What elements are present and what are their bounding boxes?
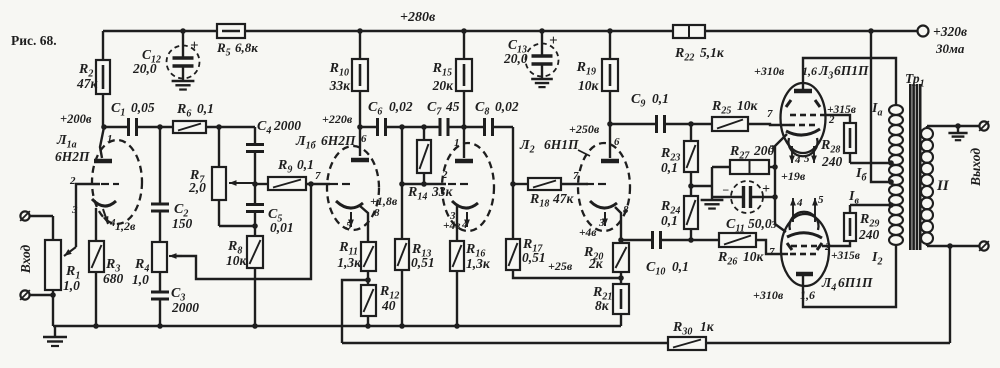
svg-text:0,02: 0,02 bbox=[389, 99, 413, 114]
svg-text:+: + bbox=[549, 33, 558, 49]
svg-text:0,1: 0,1 bbox=[197, 101, 214, 116]
svg-text:+320в: +320в bbox=[933, 24, 967, 39]
svg-text:1: 1 bbox=[454, 137, 460, 149]
svg-text:20,0: 20,0 bbox=[132, 61, 157, 76]
svg-text:Вход: Вход bbox=[18, 244, 33, 274]
svg-text:0,05: 0,05 bbox=[131, 100, 155, 115]
svg-text:2: 2 bbox=[828, 114, 835, 126]
svg-text:20,0: 20,0 bbox=[503, 51, 528, 66]
svg-text:1,3к: 1,3к bbox=[337, 255, 362, 270]
svg-text:45: 45 bbox=[445, 99, 460, 114]
svg-text:10к: 10к bbox=[578, 78, 600, 93]
svg-text:−: − bbox=[722, 183, 729, 197]
svg-text:4: 4 bbox=[794, 154, 801, 166]
svg-text:0,01: 0,01 bbox=[270, 220, 294, 235]
svg-text:1,0: 1,0 bbox=[63, 278, 80, 293]
svg-text:+19в: +19в bbox=[781, 169, 806, 183]
svg-text:5: 5 bbox=[818, 194, 824, 206]
svg-text:2к: 2к bbox=[588, 256, 604, 271]
svg-text:8к: 8к bbox=[595, 298, 610, 313]
svg-text:2: 2 bbox=[441, 169, 448, 181]
svg-text:3: 3 bbox=[71, 204, 78, 216]
svg-text:40: 40 bbox=[381, 298, 396, 313]
svg-text:+220в: +220в bbox=[322, 112, 353, 126]
svg-text:+310в: +310в bbox=[753, 288, 784, 302]
svg-text:10к: 10к bbox=[743, 249, 765, 264]
svg-text:33к: 33к bbox=[329, 78, 352, 93]
svg-text:+250в: +250в bbox=[569, 122, 600, 136]
svg-text:20к: 20к bbox=[432, 78, 455, 93]
svg-text:+25в: +25в bbox=[548, 259, 573, 273]
svg-text:6П1П: 6П1П bbox=[838, 275, 873, 290]
svg-text:+200в: +200в bbox=[60, 112, 92, 126]
svg-text:5,1к: 5,1к bbox=[700, 45, 725, 60]
svg-text:2000: 2000 bbox=[273, 118, 301, 133]
svg-text:3: 3 bbox=[768, 143, 775, 155]
svg-text:0,1: 0,1 bbox=[672, 259, 689, 274]
svg-text:+: + bbox=[190, 38, 199, 54]
svg-text:6П1П: 6П1П bbox=[834, 63, 869, 78]
svg-text:33к: 33к bbox=[431, 184, 454, 199]
svg-text:+280в: +280в bbox=[400, 10, 436, 25]
svg-text:0,1: 0,1 bbox=[661, 160, 678, 175]
svg-text:3: 3 bbox=[770, 219, 777, 231]
svg-text:II: II bbox=[936, 178, 950, 194]
svg-text:1: 1 bbox=[107, 133, 113, 145]
svg-text:2: 2 bbox=[69, 175, 76, 187]
svg-text:1,6: 1,6 bbox=[802, 64, 817, 78]
svg-text:5: 5 bbox=[346, 220, 352, 232]
svg-text:8: 8 bbox=[374, 207, 380, 219]
svg-text:7: 7 bbox=[315, 170, 321, 182]
svg-text:0,1: 0,1 bbox=[652, 91, 669, 106]
svg-text:Рис. 68.: Рис. 68. bbox=[11, 33, 57, 48]
svg-text:1,2в: 1,2в bbox=[115, 219, 136, 233]
svg-text:6Н2П: 6Н2П bbox=[321, 133, 356, 148]
svg-text:+: + bbox=[762, 182, 770, 197]
svg-text:6: 6 bbox=[614, 136, 620, 148]
svg-text:+310в: +310в bbox=[754, 64, 785, 78]
svg-text:240: 240 bbox=[821, 154, 843, 169]
svg-text:240: 240 bbox=[858, 227, 880, 242]
svg-text:8: 8 bbox=[623, 204, 629, 216]
svg-text:680: 680 bbox=[103, 271, 124, 286]
svg-text:0,51: 0,51 bbox=[522, 250, 546, 265]
svg-text:6,8к: 6,8к bbox=[235, 40, 258, 55]
svg-text:+315в: +315в bbox=[831, 250, 860, 262]
svg-text:5: 5 bbox=[804, 153, 810, 165]
svg-text:0,02: 0,02 bbox=[495, 99, 519, 114]
svg-text:7: 7 bbox=[769, 246, 775, 258]
svg-text:2000: 2000 bbox=[171, 300, 199, 315]
svg-text:2,0: 2,0 bbox=[188, 180, 206, 195]
svg-text:47к: 47к bbox=[552, 191, 575, 206]
svg-text:7: 7 bbox=[573, 170, 579, 182]
svg-text:47к: 47к bbox=[76, 76, 99, 91]
svg-text:6Н2П: 6Н2П bbox=[55, 149, 90, 164]
svg-text:0,51: 0,51 bbox=[411, 255, 435, 270]
svg-text:10к: 10к bbox=[737, 98, 759, 113]
svg-text:30ма: 30ма bbox=[935, 41, 965, 56]
svg-text:1,0: 1,0 bbox=[132, 272, 149, 287]
svg-text:4: 4 bbox=[461, 219, 468, 231]
svg-text:50,0: 50,0 bbox=[748, 216, 772, 231]
svg-text:0,1: 0,1 bbox=[297, 157, 314, 172]
svg-text:10к: 10к bbox=[226, 253, 248, 268]
svg-text:4: 4 bbox=[796, 197, 803, 209]
svg-text:+1,8в: +1,8в bbox=[370, 194, 398, 208]
svg-text:1,6: 1,6 bbox=[800, 288, 815, 302]
svg-text:6Н1П: 6Н1П bbox=[544, 137, 579, 152]
svg-text:7: 7 bbox=[767, 108, 773, 120]
svg-text:1к: 1к bbox=[700, 319, 715, 334]
svg-text:Выход: Выход bbox=[968, 148, 983, 187]
svg-text:2: 2 bbox=[824, 241, 831, 253]
svg-text:0,1: 0,1 bbox=[661, 213, 678, 228]
svg-text:150: 150 bbox=[172, 216, 193, 231]
svg-text:3: 3 bbox=[598, 217, 605, 229]
svg-text:+4в: +4в bbox=[443, 220, 460, 232]
svg-text:1,3к: 1,3к bbox=[466, 256, 491, 271]
svg-text:+4в: +4в bbox=[579, 227, 596, 239]
svg-text:6: 6 bbox=[361, 133, 367, 145]
